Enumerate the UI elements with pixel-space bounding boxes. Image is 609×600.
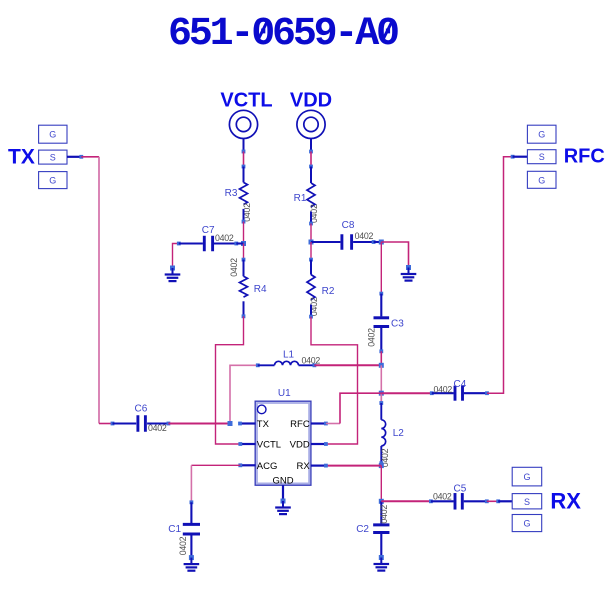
wire L1 left lead — [258, 364, 275, 366]
wire R4 to U1 VCTL — [216, 316, 244, 444]
node F junction — [379, 499, 384, 504]
node VDD 2 — [309, 165, 313, 169]
wire VCTL lead — [243, 139, 245, 152]
svg-text:R2: R2 — [322, 286, 335, 297]
wire C6 to U1 TX — [168, 423, 230, 425]
svg-text:TX: TX — [8, 146, 35, 169]
node C4 right — [485, 391, 489, 395]
node C3 bottom — [379, 349, 383, 353]
svg-text:C8: C8 — [342, 220, 355, 231]
node U1 VDD — [324, 442, 328, 446]
svg-text:0402: 0402 — [433, 491, 452, 501]
wire L1 to node A — [314, 364, 381, 366]
wire node D to L2 — [380, 393, 382, 403]
capacitor C2 — [373, 523, 389, 526]
IC U1 body — [255, 401, 311, 485]
wire ACG down — [190, 465, 192, 502]
connector TX pad G2 — [39, 172, 67, 189]
node C7 right — [234, 242, 238, 246]
wire R1 bottom lead — [310, 212, 312, 224]
svg-text:C2: C2 — [356, 524, 369, 535]
node C7 left — [177, 242, 181, 246]
wire C3 top lead — [380, 294, 382, 317]
svg-text:R3: R3 — [225, 188, 238, 199]
svg-text:TX: TX — [257, 419, 270, 430]
wire U1 RX stub — [311, 465, 326, 467]
wire R3 bottom lead — [243, 209, 245, 222]
wire L1 right lead — [299, 364, 315, 366]
node VDD 1 — [309, 150, 313, 154]
resistor R2 — [307, 275, 315, 300]
wire VDD seg — [310, 152, 312, 167]
wire U1 VDD stub — [311, 443, 326, 445]
wire RX pin stub — [498, 500, 512, 502]
wire R2 top lead — [310, 260, 312, 275]
node TX junction — [228, 421, 233, 426]
svg-text:0402: 0402 — [178, 536, 188, 555]
node C6 right — [167, 422, 171, 426]
svg-text:C7: C7 — [202, 225, 215, 236]
wire C2 bottom lead — [380, 534, 382, 558]
svg-text:0402: 0402 — [302, 356, 321, 366]
wire U1 VCTL stub — [240, 443, 255, 445]
wire C8 to node A top — [374, 241, 382, 243]
wire U1 ACG run — [191, 464, 240, 466]
wire L2 top lead — [380, 403, 382, 420]
svg-text:C3: C3 — [391, 319, 404, 330]
node L2 bottom — [379, 461, 383, 465]
wire node B to R4 — [243, 244, 245, 260]
port VCTL — [229, 110, 257, 138]
wire node A to node D — [380, 365, 382, 393]
connector TX pad G1 — [39, 125, 67, 143]
connector RFC pad G1 — [527, 125, 556, 143]
svg-text:L1: L1 — [283, 350, 295, 361]
svg-text:0402: 0402 — [379, 505, 389, 524]
wire C5 right lead — [464, 500, 487, 502]
wire TX net riser — [98, 157, 100, 424]
svg-text:0402: 0402 — [355, 231, 374, 241]
svg-text:G: G — [523, 519, 530, 529]
svg-text:S: S — [524, 497, 530, 507]
wire U1 ACG stub — [240, 464, 255, 466]
wire U1 RFC stub — [311, 422, 326, 424]
connector RX pad G2 — [512, 515, 542, 532]
node TX stub — [79, 155, 83, 159]
port VDD — [297, 110, 325, 138]
node C6 left — [111, 422, 115, 426]
node A junction — [379, 363, 384, 368]
wire R4 top lead — [243, 260, 245, 277]
svg-text:U1: U1 — [278, 388, 291, 399]
svg-text:R4: R4 — [254, 284, 267, 295]
wire C8 left lead — [311, 241, 340, 243]
resistor R3 — [240, 182, 248, 204]
node U1 ACG — [238, 463, 242, 467]
svg-text:VCTL: VCTL — [220, 89, 272, 111]
wire C3 to node A — [380, 351, 382, 365]
inductor L2 — [381, 420, 385, 446]
svg-text:S: S — [539, 152, 545, 162]
wire R1 to node C — [310, 224, 312, 243]
wire L2 to node E — [380, 463, 382, 465]
node VCTL 2 — [242, 165, 246, 169]
wire R3 to node B — [243, 222, 245, 244]
wire TX node up to L1 — [230, 365, 258, 423]
wire RFC pin stub — [513, 156, 528, 158]
svg-text:RFC: RFC — [564, 145, 605, 167]
node D junction — [379, 391, 384, 396]
wire C8 ground run — [381, 242, 408, 268]
svg-text:G: G — [49, 130, 56, 140]
svg-text:VDD: VDD — [290, 440, 310, 451]
node C3 top — [379, 292, 383, 296]
svg-text:0402: 0402 — [215, 233, 234, 243]
wire C2 top lead — [380, 501, 382, 523]
wire C4 left lead — [432, 392, 454, 394]
wire U1 RX to node E — [326, 465, 381, 467]
wire C4 right lead — [464, 392, 487, 394]
capacitor C1 — [183, 523, 200, 526]
connector RX pad S — [512, 494, 542, 509]
svg-text:RX: RX — [296, 461, 310, 472]
wire C5 to RX — [487, 500, 498, 502]
wire to R3 — [243, 167, 245, 183]
node L1 left — [256, 363, 260, 367]
node U1 VCTL — [238, 442, 242, 446]
svg-text:S: S — [50, 153, 56, 163]
connector RFC pad G2 — [527, 171, 556, 188]
connector TX pad S — [39, 150, 67, 164]
wire C7 left lead — [179, 242, 203, 244]
svg-text:R1: R1 — [294, 193, 307, 204]
node U1 TX — [238, 422, 242, 426]
wire TX net seg1 — [81, 156, 99, 158]
node C5 right — [485, 499, 489, 503]
ground C7 — [170, 266, 175, 271]
wire VCTL seg — [243, 152, 245, 167]
svg-text:RFC: RFC — [290, 419, 310, 430]
wire R2 to U1 VDD — [311, 317, 358, 444]
wire L2 bottom lead — [380, 446, 382, 463]
node C1 top — [190, 500, 194, 504]
capacitor C8 — [340, 234, 343, 250]
svg-text:0402: 0402 — [229, 258, 239, 277]
node VCTL 1 — [242, 150, 246, 154]
capacitor C5 — [454, 493, 457, 510]
wire C6 left lead — [113, 422, 137, 424]
node R4 bottom — [242, 314, 246, 318]
svg-text:ACG: ACG — [257, 461, 278, 472]
node C5 left — [429, 499, 433, 503]
ground C1 — [189, 555, 194, 560]
wire node F to C5 — [381, 500, 431, 502]
svg-text:G: G — [49, 176, 56, 186]
node RX stub — [496, 499, 500, 503]
wire C5 left lead — [431, 500, 454, 502]
svg-text:C6: C6 — [135, 404, 148, 415]
svg-text:G: G — [538, 130, 545, 140]
wire C6 right lead — [147, 422, 168, 424]
svg-text:C1: C1 — [168, 524, 181, 535]
pin 1 marker — [257, 405, 266, 414]
wire VDD lead — [310, 139, 312, 152]
svg-text:RX: RX — [550, 489, 581, 514]
connector RX pad G1 — [512, 467, 542, 486]
capacitor C4 — [454, 386, 457, 401]
svg-text:0402: 0402 — [148, 423, 167, 433]
resistor R1 — [307, 183, 315, 207]
wire C7 ground run — [173, 244, 179, 269]
node RFC stub — [511, 155, 515, 159]
svg-text:G: G — [523, 472, 530, 482]
wire C1 top lead — [190, 502, 192, 523]
svg-text:651-0659-A0: 651-0659-A0 — [168, 12, 398, 57]
node L2 top — [379, 401, 383, 405]
svg-text:GND: GND — [272, 476, 293, 487]
wire R4 bottom lead — [243, 301, 245, 316]
wire C3 bottom lead — [380, 328, 382, 351]
svg-text:0402: 0402 — [367, 328, 377, 347]
wire C7 to node B — [236, 242, 243, 244]
ground C2 — [379, 555, 384, 560]
ground C8 — [406, 265, 411, 270]
ground U1 GND — [281, 499, 286, 504]
wire to R1 — [310, 167, 312, 184]
node U1 RX — [324, 464, 328, 468]
wire TX pin stub — [67, 156, 81, 158]
connector RFC pad S — [527, 150, 556, 164]
wire C7 right lead — [214, 242, 236, 244]
node C8 right — [372, 240, 376, 244]
wire U1 RFC seg — [326, 423, 340, 425]
svg-text:VDD: VDD — [290, 89, 332, 111]
wire R2 bottom lead — [310, 305, 312, 317]
wire C4 to RFC — [487, 157, 513, 394]
node R4 top — [242, 258, 246, 262]
node R3 bottom — [242, 220, 246, 224]
node U1 RFC — [324, 422, 328, 426]
node R2 top — [309, 258, 313, 262]
svg-text:C5: C5 — [454, 484, 467, 495]
capacitor C6 — [136, 415, 139, 432]
node L1 right — [313, 363, 317, 367]
node C junction — [309, 240, 314, 245]
node C4 left — [430, 391, 434, 395]
wire node D to C4 — [381, 392, 432, 394]
wire U1 GND stub — [282, 485, 284, 501]
svg-text:C4: C4 — [454, 379, 467, 390]
resistor R4 — [240, 276, 248, 297]
capacitor C3 — [374, 316, 390, 319]
wire U1 TX stub — [240, 422, 256, 424]
wire node A down — [380, 242, 382, 294]
node B junction — [241, 241, 246, 246]
node E junction — [379, 463, 384, 468]
svg-text:VCTL: VCTL — [257, 440, 281, 451]
svg-text:0402: 0402 — [434, 384, 453, 394]
node R2 bottom — [309, 315, 313, 319]
wire RFC riser — [340, 393, 381, 423]
wire TX net seg2 — [99, 423, 113, 425]
node R1 bottom — [309, 222, 313, 226]
wire node E to node F — [380, 466, 382, 502]
wire node C to R2 — [310, 242, 312, 260]
inductor L1 — [275, 361, 299, 365]
capacitor C7 — [203, 236, 206, 252]
svg-text:L2: L2 — [393, 428, 405, 439]
wire C8 right lead — [353, 241, 374, 243]
svg-text:G: G — [538, 175, 545, 185]
wire C1 bottom lead — [190, 536, 192, 558]
node A top junction — [379, 240, 384, 245]
